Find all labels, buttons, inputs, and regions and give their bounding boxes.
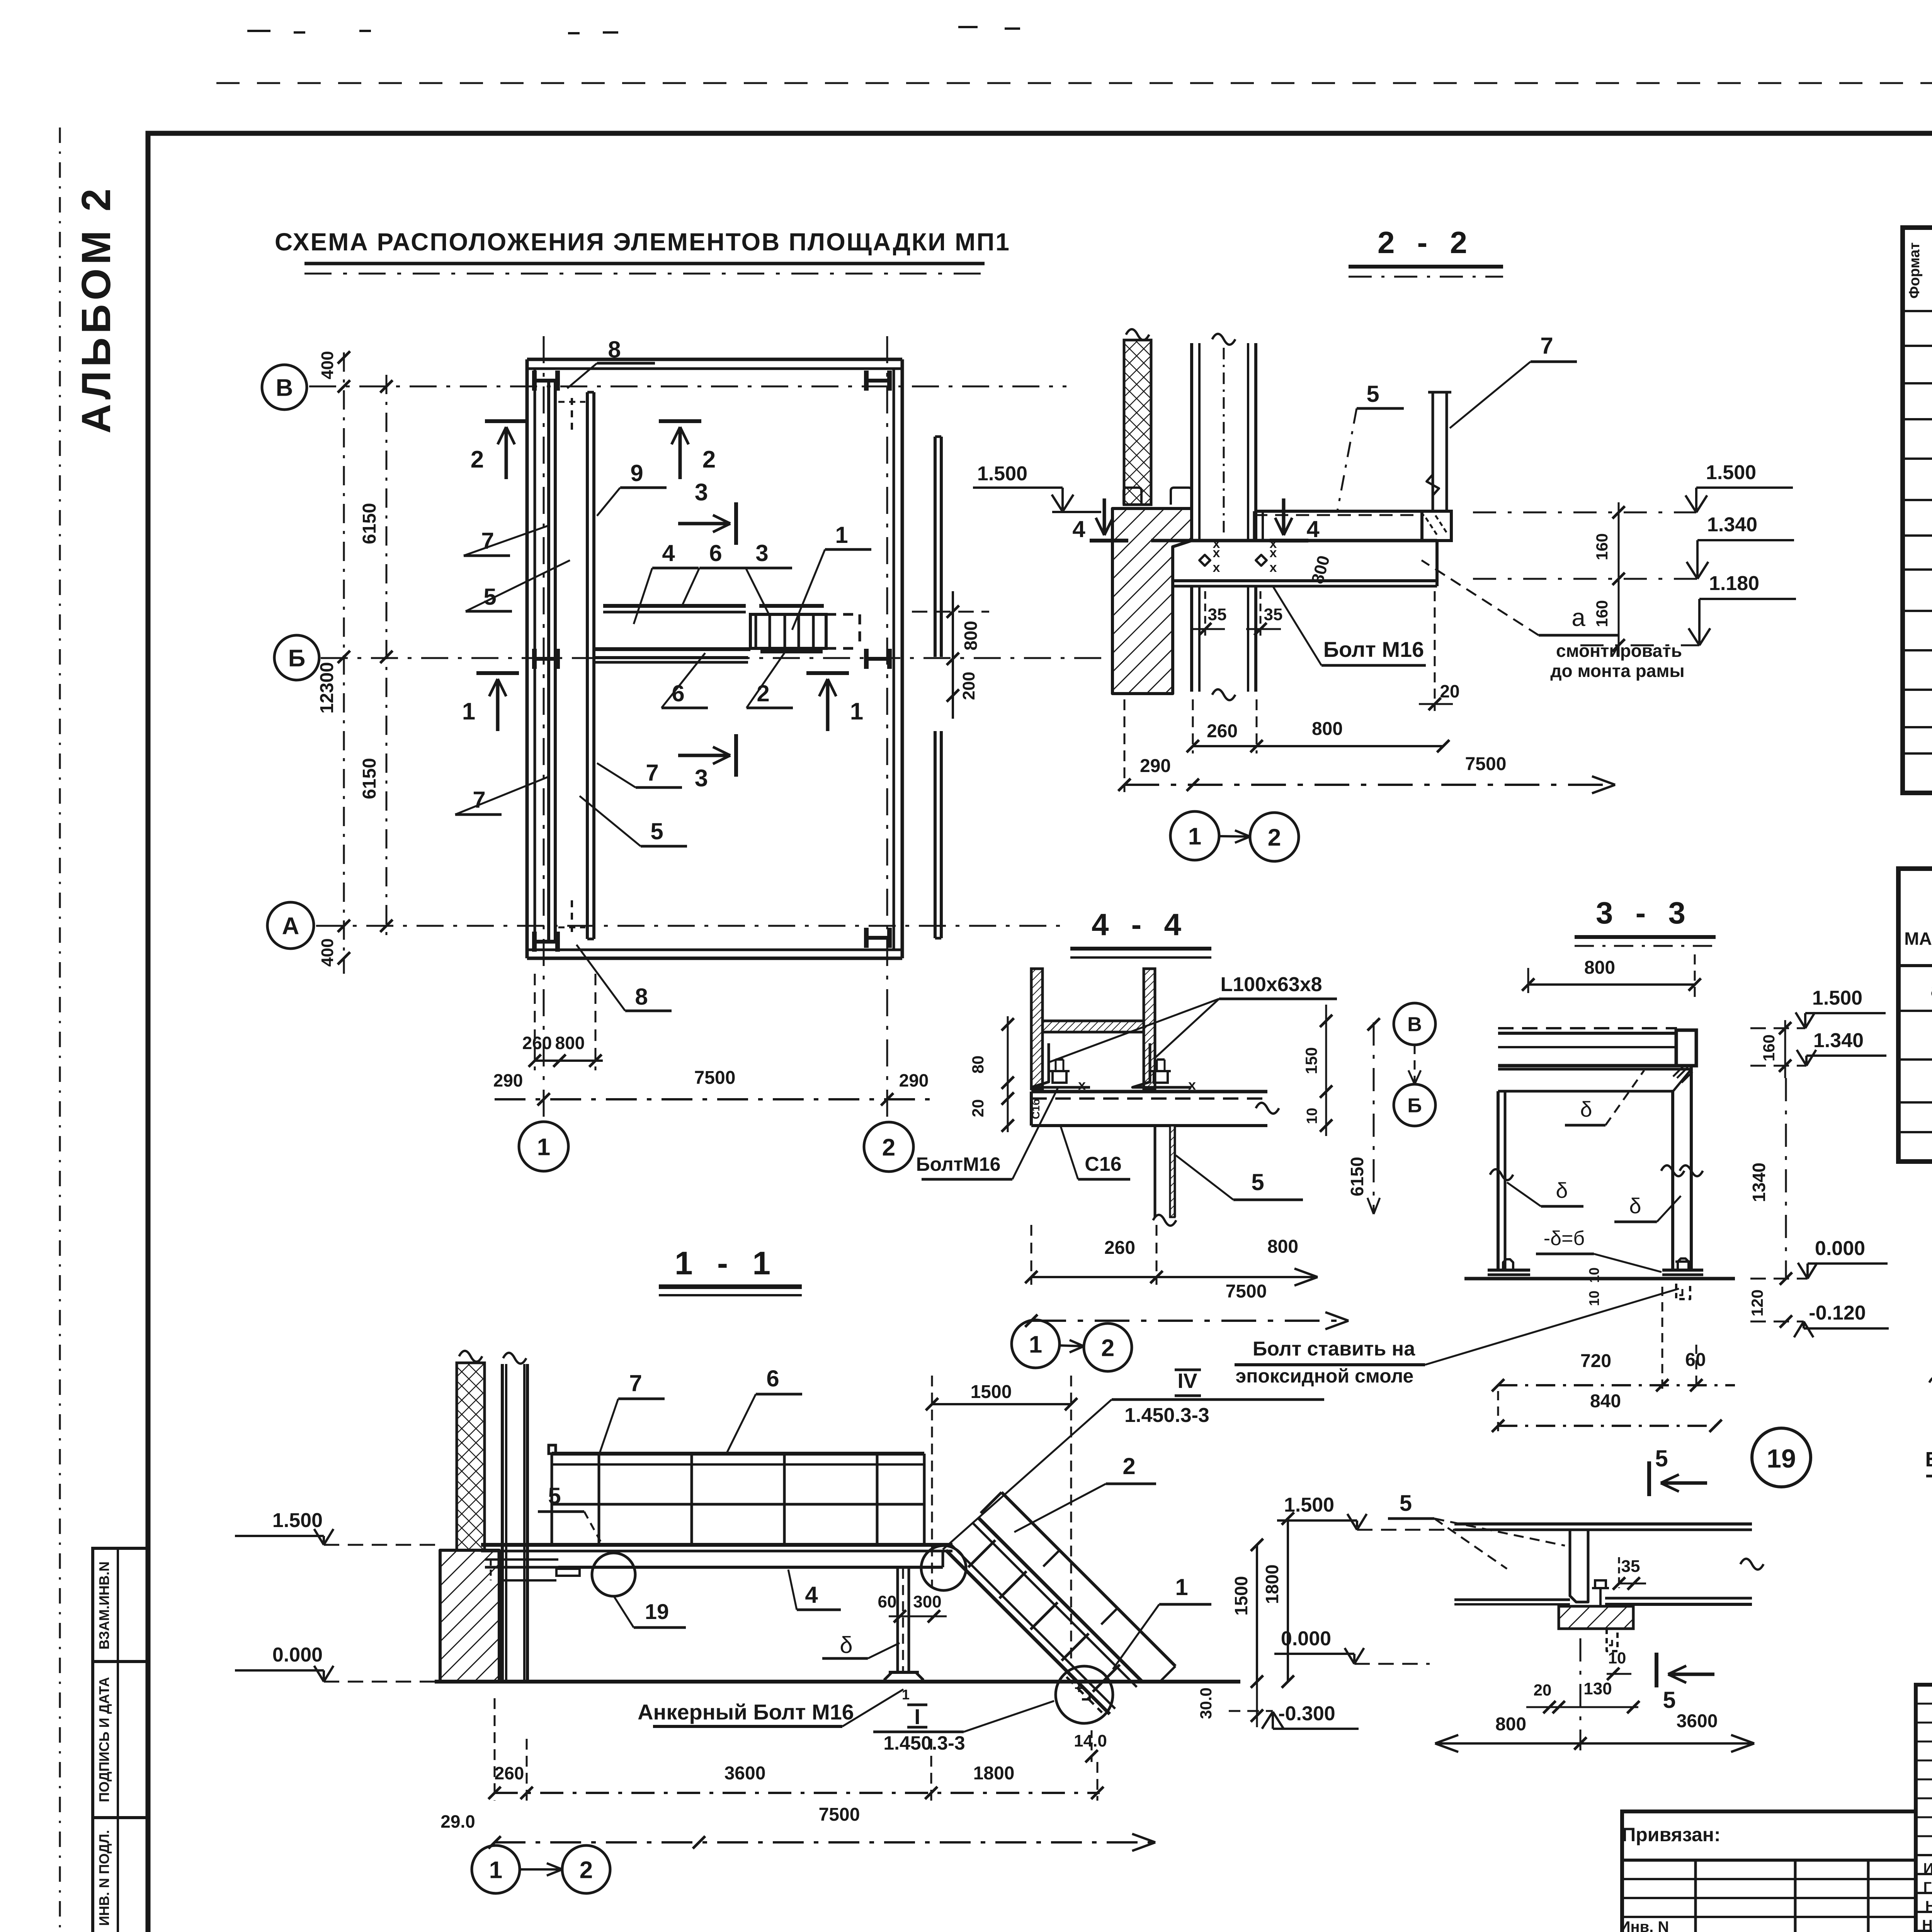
specification table grid bbox=[1903, 228, 1932, 793]
section 4-4 title bbox=[1070, 907, 1211, 957]
3-3 level 1.500 bbox=[1750, 987, 1886, 1028]
svg-text:БолтМ16: БолтМ16 bbox=[916, 1153, 1001, 1175]
drawing title bbox=[275, 228, 1010, 274]
2-2 right level 1.340 bbox=[1473, 514, 1794, 579]
svg-text:260: 260 bbox=[522, 1033, 552, 1053]
2-2 rotated dim 800 bbox=[1308, 553, 1333, 586]
2-2 handrail post bbox=[1427, 392, 1451, 511]
svg-text:4: 4 bbox=[1072, 516, 1085, 542]
1-1 dim 29.0 7500 bbox=[440, 1804, 1155, 1851]
svg-text:ГКП АСО: ГКП АСО bbox=[1923, 1879, 1932, 1896]
1-1 label 5 bbox=[538, 1483, 603, 1546]
1-1 axis circles 1 2 bbox=[472, 1845, 610, 1893]
2-2 section mark 4 left bbox=[1072, 498, 1128, 542]
3-3 label б upper bbox=[1565, 1070, 1644, 1125]
3-3 ground line bbox=[1464, 1277, 1735, 1281]
svg-text:до монта рамы: до монта рамы bbox=[1550, 661, 1684, 681]
plan label 9 bbox=[597, 460, 667, 516]
1-1 support column bbox=[884, 1567, 923, 1680]
node19 level 0.000 bbox=[1274, 1628, 1430, 1664]
svg-text:80: 80 bbox=[969, 1056, 987, 1074]
grid circle А bbox=[267, 902, 314, 949]
svg-text:6: 6 bbox=[766, 1366, 779, 1391]
svg-text:2: 2 bbox=[1122, 1453, 1135, 1479]
label Привязан: bbox=[1622, 1824, 1720, 1845]
svg-text:1.450.3-3: 1.450.3-3 bbox=[883, 1732, 965, 1754]
svg-text:1: 1 bbox=[489, 1857, 502, 1883]
2-2 bottom dims 260 800 bbox=[1187, 699, 1449, 753]
3-3 level 1.340 bbox=[1750, 1029, 1886, 1066]
plan vertical dim line 6150/6150 bbox=[359, 375, 393, 939]
svg-text:3600: 3600 bbox=[1677, 1711, 1718, 1731]
3-3 dims 10 10 left bbox=[1586, 1267, 1602, 1306]
4-4 axis circles 1 2 bbox=[1012, 1320, 1132, 1371]
plan label 8 top bbox=[567, 337, 655, 388]
4-4 slab bbox=[1031, 1092, 1279, 1126]
node19 channel element 5 bbox=[1454, 1530, 1588, 1604]
svg-text:20: 20 bbox=[969, 1099, 987, 1117]
svg-text:1: 1 bbox=[1029, 1331, 1042, 1358]
svg-text:Болт М12: Болт М12 bbox=[1925, 1448, 1932, 1471]
svg-text:10: 10 bbox=[1608, 1649, 1626, 1667]
svg-text:0.000: 0.000 bbox=[272, 1644, 323, 1666]
plan left beams (7,5,9) bbox=[549, 381, 594, 943]
2-2 dims 35 35 bbox=[1190, 591, 1282, 636]
plan label 7 upper-left bbox=[464, 526, 549, 556]
svg-text:800: 800 bbox=[1267, 1236, 1298, 1257]
1-1 ladder handrail bbox=[981, 1492, 1175, 1682]
3-3 dim 1340 right bbox=[1749, 1078, 1792, 1285]
plan section mark 1 left bbox=[462, 673, 519, 731]
grid line Б horizontal bbox=[321, 657, 1157, 659]
1-1 dims 1500 1800 rotated bbox=[1231, 1512, 1294, 1688]
svg-text:Инженер: Инженер bbox=[1923, 1861, 1932, 1877]
2-2 bottom dims 290 7500 bbox=[1118, 699, 1615, 793]
3-3 label б mid-left bbox=[1507, 1178, 1583, 1206]
3-3 level 0.000 bbox=[1750, 1237, 1888, 1279]
1-1 label 7 bbox=[600, 1370, 665, 1453]
sheet top dashed edge bbox=[216, 82, 1932, 84]
svg-text:x: x bbox=[1213, 536, 1220, 551]
svg-text:840: 840 bbox=[1590, 1391, 1621, 1412]
svg-text:Формат: Формат bbox=[1906, 242, 1923, 299]
svg-text:А: А bbox=[282, 913, 299, 939]
svg-text:35: 35 bbox=[1208, 605, 1227, 624]
svg-text:1500: 1500 bbox=[1231, 1576, 1251, 1616]
4-4 label С16 bbox=[1061, 1126, 1130, 1179]
1-1 dim 30.0 right bbox=[1197, 1682, 1263, 1727]
4-4 left angle with bolt bbox=[1031, 1043, 1090, 1087]
4-4 label L100x63x8 bbox=[1048, 973, 1337, 1063]
3-3 dim 120 rotated bbox=[1748, 1289, 1792, 1328]
1-1 label Анкерный Болт М16 bbox=[638, 1687, 910, 1726]
3-3 top beam bbox=[1498, 1028, 1696, 1066]
svg-text:5: 5 bbox=[650, 818, 663, 844]
1-1 label б support bbox=[822, 1632, 900, 1658]
svg-text:720: 720 bbox=[1580, 1351, 1611, 1371]
svg-text:Инв. N: Инв. N bbox=[1619, 1918, 1669, 1932]
label Болт ставить на эпоксидной смоле bbox=[1235, 1289, 1679, 1387]
svg-text:6150: 6150 bbox=[1347, 1157, 1367, 1196]
2-2 right level 1.500 bbox=[1473, 461, 1793, 512]
2-2 label 5 bbox=[1337, 381, 1404, 511]
2-2 label 7 bbox=[1450, 333, 1577, 428]
svg-text:800: 800 bbox=[1495, 1714, 1526, 1735]
svg-text:7500: 7500 bbox=[694, 1068, 736, 1088]
svg-text:1.500: 1.500 bbox=[977, 463, 1027, 485]
3-3 label -б=6 bbox=[1536, 1227, 1662, 1272]
svg-text:2: 2 bbox=[471, 446, 484, 473]
svg-text:7: 7 bbox=[481, 528, 494, 554]
1-1 bottom dims 260 3600 1800 bbox=[488, 1698, 1104, 1801]
svg-text:эпоксидной смоле: эпоксидной смоле bbox=[1236, 1365, 1414, 1387]
svg-text:смонтировать: смонтировать bbox=[1556, 641, 1682, 661]
svg-text:4 - 4: 4 - 4 bbox=[1092, 907, 1188, 942]
svg-text:400: 400 bbox=[318, 938, 337, 966]
grid circle Б bbox=[274, 635, 319, 680]
grid axis 1 vertical bbox=[543, 336, 545, 1122]
node19 dim 35 bbox=[1613, 1557, 1646, 1590]
svg-text:δ: δ bbox=[1556, 1178, 1568, 1202]
label ИНВ. N ПОДЛ. bbox=[96, 1830, 112, 1926]
plan label 7 lower-mid bbox=[597, 760, 682, 787]
svg-text:Привязан:: Привязан: bbox=[1622, 1824, 1720, 1845]
svg-text:-0.300: -0.300 bbox=[1278, 1702, 1335, 1725]
svg-text:1: 1 bbox=[902, 1687, 910, 1702]
2-2 brick wall (cross hatched) bbox=[1124, 329, 1151, 505]
1-1 label I 1.450.3-3 bbox=[873, 1701, 1054, 1754]
1-1 ladder bbox=[946, 1518, 1142, 1714]
node19 dims 800 3600 bbox=[1435, 1638, 1754, 1752]
label Инв N bbox=[1619, 1918, 1669, 1932]
3-3 lower beam flange bbox=[1498, 1066, 1692, 1091]
svg-text:2: 2 bbox=[702, 446, 716, 473]
svg-text:Н.контр.: Н.контр. bbox=[1925, 1898, 1932, 1915]
2-2 label a and note bbox=[1422, 560, 1685, 681]
svg-text:260: 260 bbox=[1207, 721, 1238, 742]
svg-text:3: 3 bbox=[695, 765, 708, 792]
2-2 right level 1.180 bbox=[1580, 572, 1796, 645]
svg-text:С1б: С1б bbox=[1030, 1099, 1042, 1119]
svg-text:3600: 3600 bbox=[724, 1763, 766, 1784]
svg-text:Б: Б bbox=[288, 645, 306, 672]
svg-text:1.500: 1.500 bbox=[1812, 987, 1862, 1009]
svg-text:260: 260 bbox=[1104, 1238, 1135, 1258]
svg-text:1: 1 bbox=[1175, 1574, 1188, 1600]
svg-text:290: 290 bbox=[493, 1070, 523, 1090]
plan label 8 bottom bbox=[577, 945, 672, 1011]
svg-text:МАРКА: МАРКА bbox=[1904, 929, 1932, 949]
svg-text:СХЕМА РАСПОЛОЖЕНИЯ ЭЛЕМЕНТОВ: СХЕМА РАСПОЛОЖЕНИЯ ЭЛЕМЕНТОВ ПЛОЩАДКИ МП… bbox=[275, 228, 1010, 256]
1-1 level -0.300 right bbox=[1229, 1702, 1359, 1729]
node19 dim 10 bbox=[1607, 1649, 1631, 1680]
svg-text:29.0: 29.0 bbox=[440, 1811, 475, 1832]
svg-text:160: 160 bbox=[1760, 1034, 1778, 1061]
2-2 dim 160 160 rotated bbox=[1593, 502, 1625, 657]
vertical album label АЛЬБОМ 2 bbox=[73, 185, 119, 434]
vedomost header texts bbox=[1904, 878, 1932, 958]
plan section mark 1 right bbox=[806, 673, 863, 731]
svg-text:10: 10 bbox=[1304, 1108, 1320, 1124]
2-2 beam element a bbox=[1254, 511, 1451, 541]
svg-text:С16: С16 bbox=[1085, 1153, 1121, 1175]
1-1 label 1 bbox=[1113, 1574, 1211, 1669]
svg-text:1: 1 bbox=[462, 698, 475, 725]
svg-text:1: 1 bbox=[537, 1134, 550, 1160]
node19 support base bbox=[1559, 1580, 1633, 1651]
svg-text:160: 160 bbox=[1593, 600, 1611, 627]
stamp names bbox=[1922, 1860, 1932, 1932]
svg-text:IV: IV bbox=[1177, 1369, 1197, 1393]
2-2 section mark 4 right bbox=[1270, 498, 1320, 542]
node19 level 1.500 bbox=[1277, 1494, 1454, 1530]
plan labels 6 2 below strip bbox=[662, 653, 793, 708]
svg-text:400: 400 bbox=[318, 351, 337, 379]
1-1 left connection detail bbox=[485, 1551, 580, 1580]
grid line B(В) horizontal bbox=[309, 386, 1066, 388]
svg-text:1.180: 1.180 bbox=[1709, 572, 1759, 595]
title block: stamp grid bbox=[1916, 1685, 1932, 1932]
svg-text:В: В bbox=[276, 374, 293, 401]
svg-text:14.0: 14.0 bbox=[1074, 1731, 1107, 1750]
level 1.500 left of section 2-2 bbox=[973, 463, 1101, 512]
2-2 platform slab bbox=[1151, 541, 1437, 586]
svg-text:Анкерный Болт М16: Анкерный Болт М16 bbox=[638, 1700, 854, 1724]
spec table header texts bbox=[1906, 242, 1932, 303]
svg-text:1500: 1500 bbox=[971, 1382, 1012, 1402]
3-3 dim 160 right bbox=[1760, 1020, 1791, 1078]
svg-text:I: I bbox=[914, 1704, 920, 1729]
svg-text:5: 5 bbox=[1251, 1169, 1264, 1195]
svg-text:4: 4 bbox=[1306, 516, 1320, 542]
svg-text:1.340: 1.340 bbox=[1813, 1029, 1864, 1052]
1-1 wall brick hatched bbox=[457, 1351, 485, 1550]
2-2 dim 20 bbox=[1419, 591, 1460, 711]
grid axis 2 vertical bbox=[886, 336, 888, 1121]
svg-text:-0.120: -0.120 bbox=[1809, 1302, 1866, 1324]
1-1 level 0.000 left bbox=[235, 1644, 435, 1682]
label ПОДПИСЬ И ДАТА bbox=[96, 1677, 112, 1802]
vedomost row б bbox=[1931, 1020, 1932, 1051]
svg-text:150: 150 bbox=[1302, 1047, 1320, 1074]
node19 leader from left bbox=[1388, 1491, 1565, 1569]
left stamp boxes bbox=[93, 1548, 148, 1932]
1-1 label 6 bbox=[726, 1366, 802, 1454]
svg-text:7: 7 bbox=[473, 787, 485, 813]
2-2 column I-beam bbox=[1192, 334, 1256, 700]
node circle 19 bbox=[1752, 1428, 1811, 1487]
4-4 bottom dims 260 800 bbox=[1025, 1225, 1318, 1286]
4-4 support column hatched bbox=[1153, 1126, 1176, 1226]
4-4 channel web hatched bbox=[1043, 1021, 1144, 1032]
svg-text:7500: 7500 bbox=[819, 1804, 860, 1825]
svg-text:ВЗАМ.ИНВ.N: ВЗАМ.ИНВ.N bbox=[96, 1561, 112, 1650]
svg-text:1.500: 1.500 bbox=[1284, 1494, 1334, 1516]
svg-text:x: x bbox=[1270, 560, 1277, 575]
svg-text:x: x bbox=[1213, 560, 1220, 575]
1-1 label 4 bbox=[788, 1570, 841, 1610]
4-4 В Б circles bbox=[1394, 1003, 1435, 1126]
svg-text:1 - 1: 1 - 1 bbox=[675, 1245, 778, 1281]
svg-text:0.000: 0.000 bbox=[1815, 1237, 1865, 1260]
4-4 weld x marks bbox=[1030, 1077, 1196, 1119]
svg-text:200: 200 bbox=[959, 672, 978, 700]
1-1 column bbox=[502, 1353, 527, 1681]
svg-text:7500: 7500 bbox=[1465, 754, 1507, 774]
svg-text:5: 5 bbox=[1663, 1687, 1675, 1713]
4-4 label 5 bbox=[1176, 1155, 1303, 1200]
1-1 ground line bbox=[435, 1680, 1240, 1684]
svg-text:19: 19 bbox=[1767, 1444, 1796, 1473]
plan tank walls bbox=[527, 359, 902, 958]
3-3 bottom dims 720 60 bbox=[1492, 1287, 1735, 1391]
svg-text:2: 2 bbox=[580, 1857, 593, 1883]
svg-text:a: a bbox=[1930, 977, 1932, 1002]
1-1 ladder bottom circle bbox=[1056, 1666, 1113, 1723]
svg-text:0.000: 0.000 bbox=[1281, 1628, 1331, 1650]
svg-text:a: a bbox=[1571, 604, 1585, 631]
svg-text:-δ=б: -δ=б bbox=[1544, 1227, 1585, 1250]
svg-text:3 - 3: 3 - 3 bbox=[1596, 896, 1692, 930]
svg-text:L100x63x8: L100x63x8 bbox=[1220, 973, 1322, 996]
svg-text:800: 800 bbox=[1312, 719, 1343, 739]
1-1 platform deck bbox=[481, 1545, 952, 1567]
plan right dim 800/200 bbox=[912, 591, 989, 719]
1-1 label IV 1.450.3-3 bbox=[943, 1369, 1324, 1549]
svg-text:1: 1 bbox=[835, 522, 848, 548]
2-2 concrete wall (hatched) bbox=[1112, 509, 1192, 694]
5-5 label Болт М12 bbox=[1925, 1446, 1932, 1476]
svg-text:6150: 6150 bbox=[359, 758, 380, 799]
plan section mark 3 lower bbox=[678, 734, 736, 792]
2-2 bolt symbols bbox=[1199, 536, 1277, 575]
svg-text:5: 5 bbox=[1400, 1491, 1412, 1516]
2-2 label Болт М16 bbox=[1273, 586, 1426, 665]
title block: privyazan box bbox=[1622, 1811, 1916, 1932]
svg-text:+: + bbox=[1074, 1680, 1083, 1697]
grid circle В bbox=[262, 365, 307, 410]
plan corner column symbols (H) bbox=[534, 371, 889, 952]
1-1 dim 1500 ladder bbox=[926, 1376, 1077, 1665]
plan label 5 lower-mid bbox=[580, 796, 687, 846]
1-1 level 1.500 left bbox=[235, 1509, 440, 1545]
grid line А horizontal bbox=[316, 925, 1066, 927]
svg-text:7: 7 bbox=[629, 1370, 642, 1396]
svg-text:1: 1 bbox=[1188, 823, 1201, 850]
svg-text:8: 8 bbox=[635, 984, 648, 1010]
svg-text:1: 1 bbox=[850, 698, 863, 725]
svg-text:2: 2 bbox=[1101, 1335, 1114, 1361]
label ВЗАМ.ИНВ.N bbox=[96, 1561, 112, 1650]
node19 beam element 4 bbox=[1454, 1524, 1764, 1604]
top stray dashes bbox=[247, 27, 1020, 33]
svg-text:19: 19 bbox=[645, 1599, 669, 1624]
plan vertical dim line 400/12300/400 bbox=[317, 351, 350, 974]
4-4 left flange bbox=[1031, 969, 1043, 1089]
section 3-3 title bbox=[1575, 896, 1716, 946]
svg-text:2: 2 bbox=[1268, 824, 1281, 851]
svg-text:В: В bbox=[1407, 1014, 1422, 1036]
plan bottom dim 260 800 bbox=[522, 974, 603, 1070]
1-1 node circle left bbox=[592, 1553, 635, 1596]
svg-text:6150: 6150 bbox=[359, 503, 380, 544]
plan axis circle 1 bbox=[519, 1122, 568, 1171]
svg-text:30.0: 30.0 bbox=[1197, 1687, 1215, 1719]
svg-text:δ: δ bbox=[1629, 1194, 1641, 1218]
3-3 right column bbox=[1661, 1066, 1703, 1270]
plan section mark 3 upper bbox=[678, 479, 736, 545]
3-3 left column bbox=[1490, 1091, 1513, 1270]
svg-text:НАЧ.АСО: НАЧ.АСО bbox=[1922, 1917, 1932, 1932]
svg-text:9: 9 bbox=[630, 460, 643, 486]
svg-text:6: 6 bbox=[709, 540, 722, 566]
svg-text:Болт ставить на: Болт ставить на bbox=[1253, 1338, 1415, 1360]
plan section mark 2 left bbox=[471, 421, 527, 479]
svg-text:800: 800 bbox=[555, 1033, 585, 1053]
4-4 dim 6150 rotated bbox=[1347, 1018, 1380, 1214]
svg-text:120: 120 bbox=[1748, 1289, 1766, 1316]
plan axis circle 2 bbox=[864, 1122, 913, 1172]
vedomost table grid bbox=[1898, 869, 1932, 1162]
svg-text:35: 35 bbox=[1264, 605, 1283, 624]
svg-text:4: 4 bbox=[662, 540, 675, 566]
svg-text:δ: δ bbox=[1580, 1097, 1592, 1121]
1-1 label 19 bbox=[614, 1596, 686, 1628]
svg-text:7: 7 bbox=[646, 760, 658, 786]
svg-text:20: 20 bbox=[1534, 1681, 1552, 1699]
plan bottom dim 290 7500 290 bbox=[493, 1068, 935, 1105]
4-4 dims 150 10 right bbox=[1302, 1005, 1332, 1136]
4-4 dim 7500 bbox=[1025, 1281, 1349, 1329]
svg-text:x: x bbox=[1270, 536, 1277, 551]
1-1 label 2 bbox=[1014, 1453, 1156, 1532]
svg-text:160: 160 bbox=[1593, 533, 1611, 560]
svg-text:10: 10 bbox=[1586, 1267, 1602, 1283]
svg-text:290: 290 bbox=[1140, 756, 1171, 776]
svg-text:1.450.3-3: 1.450.3-3 bbox=[1124, 1404, 1209, 1427]
svg-text:2 - 2: 2 - 2 bbox=[1378, 225, 1474, 260]
svg-text:5: 5 bbox=[1655, 1446, 1668, 1471]
svg-text:1.340: 1.340 bbox=[1707, 514, 1757, 536]
svg-text:Б: Б bbox=[1407, 1095, 1422, 1117]
3-3 bottom dim 840 bbox=[1492, 1391, 1722, 1434]
svg-text:60: 60 bbox=[878, 1592, 897, 1611]
4-4 dims 80 20 left bbox=[969, 1016, 1014, 1132]
svg-text:7500: 7500 bbox=[1226, 1281, 1267, 1302]
1-1 dims 60 300 bbox=[878, 1592, 947, 1622]
plan section mark 2 right bbox=[659, 421, 716, 479]
svg-text:800: 800 bbox=[961, 621, 981, 651]
svg-text:1800: 1800 bbox=[1262, 1565, 1282, 1604]
svg-text:1.500: 1.500 bbox=[1706, 461, 1756, 484]
plan label 7 lower-left bbox=[455, 777, 549, 815]
2-2 axis circles 1 2 bbox=[1170, 811, 1299, 861]
plan platform strip (elements 4/6/3/1) bbox=[594, 606, 824, 662]
svg-text:4: 4 bbox=[805, 1582, 818, 1608]
svg-text:Болт М16: Болт М16 bbox=[1323, 637, 1424, 662]
svg-text:8: 8 bbox=[608, 337, 621, 362]
svg-text:ПОДПИСЬ И ДАТА: ПОДПИСЬ И ДАТА bbox=[96, 1677, 112, 1802]
plan right railing bars (element 7) bbox=[935, 437, 941, 938]
node19 sec mark 5 lower bbox=[1656, 1653, 1714, 1713]
node19 sec mark 5 upper bbox=[1649, 1446, 1707, 1496]
3-3 label б mid-right bbox=[1614, 1194, 1681, 1222]
svg-text:1800: 1800 bbox=[973, 1763, 1015, 1784]
5-5 beam bbox=[1929, 1343, 1932, 1422]
svg-text:290: 290 bbox=[899, 1070, 929, 1090]
svg-text:10: 10 bbox=[1586, 1291, 1602, 1306]
svg-text:130: 130 bbox=[1583, 1679, 1612, 1698]
